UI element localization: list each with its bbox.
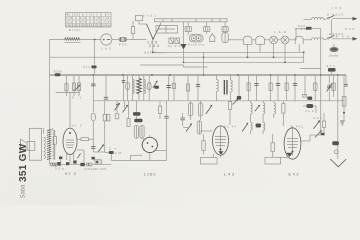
wire: tube3 grid link — [199, 118, 230, 131]
resistor R26 — [282, 101, 285, 126]
svg-text:2x50μ: 2x50μ — [84, 167, 95, 171]
svg-text:EL 4?: EL 4? — [224, 125, 236, 129]
wire: bus y67 — [140, 64, 184, 66]
svg-text:LA2: LA2 — [101, 47, 111, 51]
wire — [298, 44, 300, 52]
electrolytic C24b (hatched box) — [84, 163, 95, 171]
wire — [295, 28, 297, 40]
resistor R13 — [314, 75, 317, 101]
coil L7b — [144, 75, 146, 101]
svg-text:A 6500: A 6500 — [327, 13, 343, 17]
brand: Saba 351 GW (rotated) — [18, 143, 29, 198]
wire — [229, 39, 244, 41]
resistor R9 — [187, 75, 190, 101]
wire — [247, 45, 249, 58]
capacitor C6a — [122, 75, 126, 101]
antenna coil L2 — [243, 36, 252, 44]
wire: feeds above tube2 — [129, 101, 137, 119]
wire: bus y52 — [153, 51, 304, 53]
wire: tube4 right links — [301, 75, 321, 141]
switch S1a — [324, 15, 335, 19]
svg-text:244: 244 — [149, 44, 159, 48]
svg-text:47n: 47n — [327, 64, 335, 68]
svg-text:Dreh-Ko: Dreh-Ko — [188, 42, 204, 46]
wire: main bus y75 (heavy) — [50, 74, 347, 76]
coil L5 (wave band) — [312, 38, 324, 40]
potentiometer P1 (arrows) — [115, 101, 121, 119]
wire — [127, 39, 147, 41]
svg-text:VY 2: VY 2 — [65, 172, 76, 176]
svg-text:50μ: 50μ — [55, 167, 64, 171]
wire — [112, 39, 119, 41]
switch arrow S2 — [93, 126, 104, 152]
wire: bus y57 — [50, 56, 304, 58]
switch arrow S3 — [206, 105, 213, 114]
resistor R11 — [269, 75, 272, 101]
resistor R10 — [247, 75, 250, 101]
capacitor C10 — [254, 75, 258, 101]
resistor R5 — [72, 75, 81, 100]
capacitor C9 (dark) — [237, 75, 241, 100]
antenna coil L3 — [256, 36, 265, 44]
trimmer block T3b — [204, 22, 210, 34]
wire: small marks below tube1 — [59, 150, 84, 166]
coil L4 — [295, 27, 307, 44]
wire: lamp drop — [94, 40, 96, 65]
wire: output arrow lower — [332, 35, 358, 41]
resistor R23 — [229, 101, 232, 118]
coil L7a — [133, 75, 135, 101]
svg-text:n03: n03 — [331, 6, 341, 10]
socket A2 — [274, 30, 289, 44]
potentiometer P2 (arrow circle) — [183, 123, 192, 131]
tube voltage table — [66, 13, 112, 28]
svg-text:2 x 0,1: 2 x 0,1 — [143, 14, 156, 18]
socket A1 — [270, 36, 278, 44]
svg-text:Saba: Saba — [21, 184, 27, 199]
capacitor C29 (dark, in tube4 loop) — [286, 153, 293, 157]
capacitor C2 (dark blob) — [83, 65, 97, 75]
capacitor C28 — [181, 113, 185, 126]
capacitor C14 (variable, arrow) — [327, 75, 333, 101]
electrolytic C7 (oval) — [147, 75, 151, 101]
IF coil pair above tube2 — [134, 125, 144, 138]
resistor R18 — [159, 101, 162, 119]
wire: lower rail y100.8 — [93, 100, 344, 102]
svg-text:E 442: E 442 — [291, 125, 303, 129]
electrolytic C17 (oval) — [91, 101, 96, 128]
trimmer block T3c — [222, 22, 228, 32]
wire: switch link vertical — [331, 20, 333, 39]
resistor R22 (below tube3 left) — [202, 134, 205, 155]
capacitor C18 (dark) — [133, 112, 140, 116]
diode arrows near tube4 — [313, 113, 326, 137]
resistor R3 — [65, 75, 68, 96]
capacitor C12 — [293, 75, 297, 101]
switch arrow S6 — [255, 105, 260, 112]
ground: dial ground triangle — [180, 44, 186, 50]
svg-text:2402001908085630215430: 2402001908085630215430 — [66, 24, 111, 28]
svg-text:P40: P40 — [336, 35, 349, 39]
capacitor C16 (dark blob on drop) — [332, 141, 339, 145]
coil L10 (above tube3) — [198, 101, 202, 120]
node: V junction (voltage selector) — [139, 22, 165, 55]
wire — [273, 44, 275, 57]
svg-text:47n: 47n — [83, 65, 90, 69]
electrolytic C24 (dark) — [80, 163, 84, 166]
lamp LA2 — [101, 34, 112, 51]
wire: bus y62 — [184, 61, 304, 63]
capacitor C1 (blocking, dark) — [296, 24, 321, 30]
capacitor C15 (dark) on bus — [327, 64, 336, 75]
trimmer arrow — [123, 101, 129, 113]
coil L8 (osc, dark) — [137, 75, 141, 101]
wire: tube2 lower links — [111, 151, 166, 161]
wire — [303, 52, 305, 62]
IF transformer pair — [168, 38, 181, 48]
capacitor C27 (dark, at tube3 bottom) — [218, 151, 223, 155]
capacitor C23 (dark small) — [73, 153, 80, 163]
coil L11 (mid, hatched) — [197, 120, 201, 134]
tube V2 socket (round, 1JD2) — [141, 135, 159, 177]
resistor R4 — [73, 75, 76, 96]
capacitor C13 (dark) — [303, 75, 313, 100]
dial scale box — [156, 26, 178, 34]
wire: tube1 anode feed — [69, 93, 71, 128]
dial lamp bar (scale) — [155, 19, 228, 22]
resistor R8 — [173, 75, 176, 101]
resistor R14 — [332, 75, 335, 97]
coil L13 — [274, 101, 276, 118]
variable arrow S4 — [153, 81, 159, 89]
trimmer (pentagon) — [210, 33, 215, 42]
lamp L8 (small circle) — [334, 150, 338, 154]
capacitor C4 — [91, 75, 96, 101]
wire: box below tube3 — [201, 154, 221, 164]
wire — [183, 22, 185, 44]
wire: left feed to lamp — [50, 39, 101, 41]
wire: left rail vertical — [49, 40, 51, 165]
wire: bottom rail — [50, 163, 112, 165]
svg-text:L B L S D L B H L R: L B L S D L B H L R — [66, 17, 109, 20]
resistor R2 — [131, 21, 134, 40]
capacitor C3 (on bus, dark) — [54, 69, 62, 76]
svg-text:Sp 0.5: Sp 0.5 — [168, 44, 181, 48]
svg-text:351 GW: 351 GW — [18, 143, 29, 182]
svg-text:30k: 30k — [313, 116, 323, 120]
trimmer block T3a — [185, 22, 191, 35]
loudspeaker LS1 — [21, 128, 42, 160]
svg-text:M·025: M·025 — [95, 167, 106, 171]
wire — [303, 39, 311, 41]
wire — [252, 39, 256, 41]
tuning unit U1 (oval with two cores) — [188, 35, 204, 47]
wire: bus y68 right — [300, 67, 321, 69]
wire — [284, 44, 286, 62]
wire — [265, 39, 270, 41]
capacitor C5 — [104, 75, 108, 101]
fuse box F1 — [136, 16, 143, 25]
resistor R12 — [285, 75, 288, 101]
IF transformer T4 primary coils — [251, 101, 253, 134]
svg-text:Skala: Skala — [329, 54, 338, 58]
capacitor C19 (dark) — [134, 119, 142, 123]
electrolytic C21 (hatched box) — [50, 163, 64, 171]
tube U3 (oval, output EL) — [213, 125, 237, 177]
coil L6 (top row) — [304, 17, 324, 19]
resistor R20 (horizontal, right of tube1) — [77, 128, 93, 152]
electrolytic C24c (outlined) — [95, 160, 106, 171]
electrolytic C22 (dark) — [57, 162, 69, 166]
wire: V down to bus — [152, 39, 154, 53]
variable arrow S8 — [75, 85, 81, 91]
svg-text:1JD2: 1JD2 — [144, 173, 156, 177]
wire — [259, 45, 261, 53]
svg-text:500: 500 — [298, 24, 305, 28]
coil L9 (above tube3) — [188, 101, 192, 120]
resistor R1 (series dropper) — [119, 38, 127, 47]
capacitor C8 — [196, 75, 200, 101]
node dots on buses — [92, 39, 338, 76]
wire: box below tube4 — [265, 154, 287, 165]
IF transformer T1 — [217, 75, 233, 101]
capacitor C11 — [276, 75, 280, 101]
variable arrow S7 — [242, 123, 248, 132]
coupling coil — [222, 32, 228, 42]
variable arrow S5 — [233, 99, 239, 105]
resistor R15 (right drop) — [340, 75, 346, 125]
capacitor C31 (dark, grid) — [105, 147, 122, 157]
svg-text:5000: 5000 — [54, 69, 62, 73]
svg-text:L43: L43 — [224, 173, 234, 177]
wire: short rail y92.5 — [56, 92, 81, 94]
capacitor C30 (dark, right of tube4) — [303, 104, 316, 113]
wire: output arrow upper — [327, 13, 358, 32]
capacitor C25 — [91, 147, 95, 149]
resistor R24 (left of tube4) — [271, 134, 274, 154]
wire — [289, 39, 295, 41]
svg-text:0.1: 0.1 — [72, 96, 81, 100]
inductor L1 (mains choke) — [65, 28, 83, 43]
resistor R19 (on left rail) — [53, 130, 56, 160]
IF transformer T4 secondary coils — [263, 101, 265, 134]
svg-text:1 A-D: 1 A-D — [274, 30, 287, 34]
tube U4 (oval, output pentode) — [284, 125, 303, 177]
resistor R17 — [127, 118, 130, 126]
svg-text:4μF: 4μF — [305, 109, 314, 113]
svg-text:P06: P06 — [119, 43, 127, 47]
capacitor C32 (dark) — [256, 124, 261, 128]
wire — [183, 50, 185, 63]
capacitor C26 (dark small) — [92, 157, 95, 161]
svg-text:P40: P40 — [345, 27, 354, 31]
capacitor C20 — [164, 101, 168, 151]
wire — [203, 52, 205, 75]
capacitor C33 (bus end stub) — [344, 75, 348, 86]
ground: big chevron — [330, 159, 346, 167]
pilot lamp (shaded) — [329, 44, 339, 58]
capacitor C8a (dark bars) — [167, 75, 171, 101]
svg-text:1M: 1M — [115, 151, 122, 155]
output transformer T2 — [44, 128, 54, 160]
wire: long drop to ground chevron — [337, 75, 339, 159]
svg-text:E42: E42 — [289, 173, 299, 177]
electrolytic C6b (oval) — [126, 75, 130, 101]
resistor R16 pair — [103, 101, 110, 126]
wire — [320, 28, 322, 75]
tube U2 VY2 (oval rectifier) — [63, 124, 82, 177]
switch S1b — [324, 32, 344, 40]
wire — [278, 39, 282, 41]
